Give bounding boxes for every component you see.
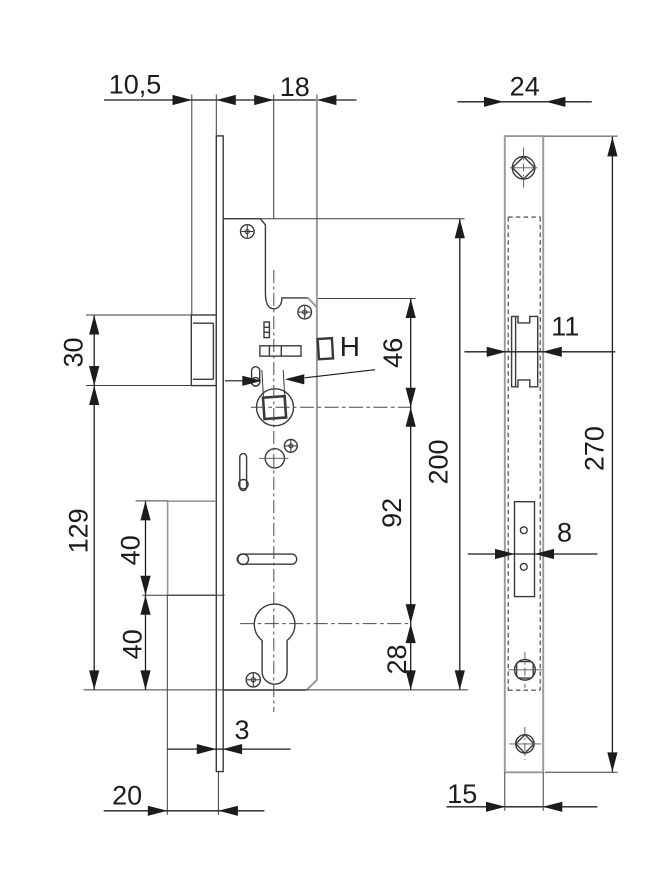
latch bolt <box>191 315 216 386</box>
round hole below follower <box>265 449 284 468</box>
screw S2 <box>298 305 312 319</box>
follower horizontal centerline <box>251 406 411 408</box>
svg-text:46: 46 <box>378 338 408 368</box>
cylinder horizontal centerline <box>240 623 411 625</box>
follower square spindle hole <box>263 396 286 419</box>
vertical centerline <box>273 270 275 712</box>
dim 15 <box>447 806 598 808</box>
spindle dimension arrows with leader <box>225 370 375 386</box>
ext lines top-left <box>192 95 317 316</box>
svg-text:10,5: 10,5 <box>109 70 162 100</box>
dim 3 <box>168 748 291 750</box>
capsule slot B <box>252 367 260 386</box>
middle cheese-head screw <box>508 652 542 688</box>
dim 20 <box>104 810 265 812</box>
H marker square <box>318 338 333 359</box>
slide plate side view (8mm) <box>515 502 535 597</box>
svg-text:8: 8 <box>557 518 572 548</box>
svg-text:11: 11 <box>551 312 579 342</box>
top countersunk screw <box>510 148 538 191</box>
screw S1 <box>241 225 255 239</box>
svg-text:270: 270 <box>580 426 610 471</box>
svg-text:40: 40 <box>116 535 146 565</box>
euro cylinder hole <box>254 604 295 684</box>
slide window (3-cell wide) <box>260 346 301 356</box>
svg-text:3: 3 <box>234 715 249 745</box>
dim 129 <box>93 386 95 690</box>
dim 46 / 92 / 28 column <box>410 299 412 690</box>
hole centerline <box>259 457 288 459</box>
faceplate front strip <box>505 136 543 772</box>
screw S3 <box>284 440 297 453</box>
capsule slot A <box>240 454 247 491</box>
lock case back edge (gray) <box>307 298 317 690</box>
svg-text:24: 24 <box>510 72 540 102</box>
dim 200 <box>459 219 461 690</box>
dim 11 <box>464 351 615 353</box>
spindle dim extension lines <box>262 370 285 397</box>
svg-text:18: 18 <box>280 72 310 102</box>
dim 270 <box>611 137 613 772</box>
dim top-left line (10,5 and 18) <box>104 99 357 101</box>
gearbox housing <box>168 501 217 595</box>
svg-text:129: 129 <box>64 508 94 553</box>
svg-text:H: H <box>340 331 360 362</box>
screw S4 <box>246 673 260 687</box>
hidden lock case (dashed) <box>508 217 540 690</box>
svg-text:92: 92 <box>377 498 407 528</box>
dim 40 / 40 <box>145 501 147 690</box>
svg-text:28: 28 <box>382 644 412 674</box>
svg-text:200: 200 <box>423 439 453 484</box>
dim 24 <box>458 101 592 103</box>
bottom countersunk screw <box>509 727 541 760</box>
dim 8 <box>468 553 598 555</box>
lock case outline <box>223 219 308 690</box>
follower circle <box>257 389 294 426</box>
lever window (3-cell) <box>264 322 269 338</box>
follower spool side view <box>512 316 538 386</box>
dim 30 <box>93 315 95 386</box>
svg-text:30: 30 <box>59 337 89 367</box>
svg-text:20: 20 <box>112 781 142 811</box>
svg-text:40: 40 <box>117 629 147 659</box>
faceplate strip <box>216 136 223 772</box>
horizontal slot with pin <box>237 554 297 565</box>
svg-text:15: 15 <box>447 779 477 809</box>
